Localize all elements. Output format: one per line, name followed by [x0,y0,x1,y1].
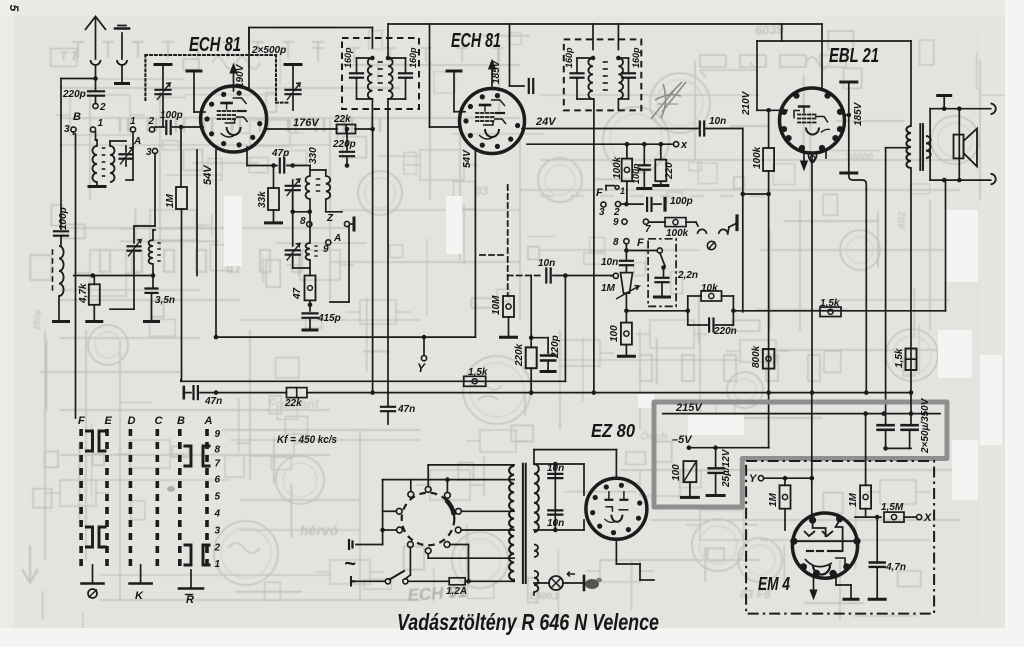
svg-text:1: 1 [98,118,104,129]
svg-text:T T: T T [60,49,80,63]
svg-text:B: B [177,415,185,427]
svg-text:9: 9 [323,244,329,255]
svg-text:Kf = 450 kc/s: Kf = 450 kc/s [277,434,337,446]
svg-text:A: A [204,415,213,427]
svg-text:100k: 100k [752,146,763,169]
svg-text:D: D [128,415,136,427]
svg-text:Z: Z [326,213,334,224]
svg-text:8: 8 [613,237,619,248]
svg-text:C: C [155,415,164,427]
svg-text:Vadásztöltény R 646 N Velenc: Vadásztöltény R 646 N Velence [397,609,659,635]
svg-text:1,5M: 1,5M [881,502,904,513]
svg-text:10n: 10n [538,258,555,269]
svg-text:100p: 100p [670,196,693,207]
svg-text:2: 2 [148,116,155,127]
svg-text:A: A [333,233,341,244]
svg-text:A: A [133,136,141,147]
svg-text:1,2A: 1,2A [446,586,467,597]
svg-text:1M: 1M [601,283,616,294]
svg-text:100k: 100k [666,228,689,239]
svg-text:7: 7 [215,459,221,470]
svg-text:Y: Y [417,361,426,375]
svg-text:1,5k: 1,5k [894,348,905,368]
svg-text:ECH 81: ECH 81 [189,34,241,56]
svg-text:100p: 100p [58,207,69,230]
svg-text:03: 03 [475,184,489,198]
svg-text:210V: 210V [741,90,752,116]
svg-text:100: 100 [671,464,682,481]
svg-text:3: 3 [64,124,70,135]
svg-text:5: 5 [215,492,221,503]
svg-text:10k: 10k [701,283,718,294]
svg-text:7: 7 [645,224,651,235]
svg-text:215V: 215V [675,402,703,414]
svg-text:100k: 100k [612,156,623,179]
svg-text:1: 1 [620,186,625,196]
svg-text:4,7n: 4,7n [885,562,906,573]
svg-text:–5V: –5V [672,434,693,446]
svg-text:176V: 176V [293,117,320,129]
svg-text:8: 8 [300,216,306,227]
svg-text:54V: 54V [202,164,214,185]
svg-text:~: ~ [344,553,356,575]
svg-text:1M: 1M [165,193,176,208]
svg-text:160p: 160p [408,47,418,68]
svg-text:22k: 22k [284,398,302,409]
svg-text:2×50µ/350V: 2×50µ/350V [920,397,931,454]
svg-text:100: 100 [609,325,620,342]
svg-text:47n: 47n [204,396,222,407]
svg-text:220p: 220p [550,335,561,359]
svg-text:220k: 220k [514,343,525,367]
svg-text:160p: 160p [564,47,574,68]
svg-text:9: 9 [215,429,221,440]
svg-text:4: 4 [214,509,221,520]
svg-text:F: F [596,187,603,199]
svg-text:33k: 33k [257,191,268,208]
svg-text:1M: 1M [848,492,859,507]
svg-text:2,2n: 2,2n [677,270,698,281]
svg-text:1: 1 [130,116,136,127]
svg-text:100p: 100p [631,163,641,184]
svg-text:10M: 10M [491,295,502,315]
svg-text:F: F [637,237,644,249]
svg-text:9: 9 [613,217,619,228]
svg-text:1: 1 [215,559,221,570]
svg-text:800k: 800k [751,345,762,368]
svg-text:8: 8 [215,444,221,455]
svg-text:1,5k: 1,5k [820,298,840,309]
svg-text:10n: 10n [709,116,726,127]
svg-text:10n: 10n [547,518,564,529]
svg-text:2: 2 [99,102,106,113]
svg-text:1M: 1M [768,492,779,507]
svg-text:x: x [680,139,688,151]
svg-text:22k: 22k [333,114,351,125]
svg-text:220: 220 [664,162,675,180]
svg-text:2: 2 [214,543,221,554]
svg-text:5: 5 [7,5,21,12]
svg-text:hérvó: hérvó [300,522,339,538]
svg-text:E: E [105,415,113,427]
svg-text:24V: 24V [535,116,557,128]
svg-text:190V: 190V [235,63,246,88]
svg-text:47: 47 [292,287,303,300]
svg-text:B: B [73,111,81,123]
svg-text:X: X [923,512,932,524]
svg-text:3,5n: 3,5n [155,295,175,306]
svg-text:1,5k: 1,5k [468,367,488,378]
svg-text:220p: 220p [62,89,86,100]
svg-text:220n: 220n [713,326,737,337]
svg-text:54V: 54V [462,149,473,168]
svg-text:185V: 185V [491,59,502,84]
svg-text:6: 6 [215,475,221,486]
svg-text:25µ/12V: 25µ/12V [721,448,732,488]
svg-text:10n: 10n [601,257,618,268]
svg-text:3: 3 [599,207,605,218]
svg-text:3: 3 [146,147,152,158]
svg-text:160p: 160p [343,47,353,68]
svg-text:3: 3 [215,526,221,537]
svg-text:330: 330 [308,147,319,164]
svg-text:250µ: 250µ [32,310,42,331]
svg-text:185V: 185V [853,101,864,126]
svg-text:ECH 81: ECH 81 [451,30,501,52]
svg-text:160p: 160p [631,47,641,68]
svg-text:K: K [135,590,144,602]
svg-text:47n: 47n [397,404,415,415]
svg-text:A02: A02 [897,211,908,231]
svg-text:47p: 47p [271,148,289,159]
svg-text:EBL 21: EBL 21 [829,45,879,67]
svg-text:F: F [78,415,85,427]
svg-text:4,7k: 4,7k [78,283,89,304]
svg-text:415p: 415p [317,313,341,324]
svg-text:10n: 10n [547,463,564,474]
svg-text:220p: 220p [332,139,356,150]
svg-text:R: R [186,594,194,606]
svg-text:EM 4: EM 4 [758,574,790,594]
svg-text:EZ 80: EZ 80 [591,421,635,441]
